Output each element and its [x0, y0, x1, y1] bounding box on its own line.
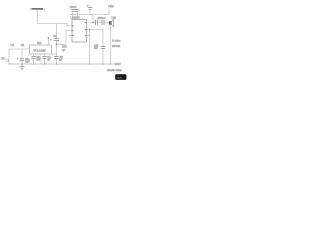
capacitor C8 plates	[31, 56, 35, 58]
wire lower rail	[52, 53, 57, 55]
svg-text:VOLUME: VOLUME	[34, 49, 46, 53]
speaker LS1	[110, 23, 112, 65]
svg-text:220uF: 220uF	[98, 16, 106, 20]
capacitor C2 plates	[54, 39, 59, 41]
capacitor C6 plates	[101, 46, 105, 48]
capacitor C1 gain plates	[71, 9, 78, 11]
svg-text:uF: uF	[47, 58, 50, 61]
potentiometer VR1 leads	[29, 9, 46, 10]
capacitor C3 bypass	[88, 7, 92, 9]
wire C2 bottom	[56, 41, 58, 55]
wire pin5 out	[87, 29, 90, 31]
svg-text:LM386: LM386	[71, 15, 81, 19]
capacitor C9 plates	[42, 56, 46, 58]
svg-text:+9V: +9V	[108, 4, 115, 8]
wire supply corner to pin6	[87, 15, 96, 23]
wire rail faint segment	[93, 14, 109, 16]
ground symbol	[20, 64, 25, 70]
svg-text:+: +	[50, 39, 52, 42]
wire +9V drop	[108, 8, 110, 15]
junction dots bus	[8, 63, 111, 64]
module box volume control	[30, 45, 52, 54]
wire input top rail	[38, 24, 73, 26]
svg-text:C2: C2	[11, 43, 15, 47]
svg-text:16V: 16V	[25, 60, 30, 63]
svg-text:IN: IN	[2, 57, 5, 61]
capacitor C4 output plates	[96, 20, 98, 25]
svg-text:elpro: elpro	[117, 76, 123, 79]
svg-text:SPKR: SPKR	[112, 44, 121, 48]
pin ticks	[72, 22, 86, 36]
IC U1 box	[72, 20, 87, 43]
svg-text:+: +	[17, 57, 19, 60]
wire branch C9	[44, 54, 46, 64]
svg-text:uF: uF	[62, 48, 66, 52]
svg-text:8 ohm: 8 ohm	[112, 39, 121, 43]
svg-text:1W: 1W	[94, 47, 98, 50]
svg-text:uF: uF	[59, 58, 62, 61]
svg-text:circuits today: circuits today	[107, 69, 122, 72]
logo badge	[115, 74, 126, 80]
wire supply rail	[70, 14, 93, 16]
svg-text:C1: C1	[21, 43, 25, 47]
svg-text:+: +	[87, 4, 89, 8]
svg-text:GND: GND	[115, 62, 121, 66]
input jack J1	[6, 59, 9, 62]
wire zobel cap branch	[90, 30, 104, 65]
wire zobel down	[89, 30, 91, 65]
junction dot C2	[56, 44, 57, 45]
wire branch C10	[56, 54, 58, 64]
svg-text:LS1: LS1	[112, 15, 117, 19]
wire wiper to node	[37, 10, 39, 24]
wire wiper stub into box	[47, 38, 49, 45]
junction dot output	[92, 22, 93, 23]
wire C1 to pins 1 8	[73, 11, 78, 19]
wire input rail	[9, 48, 30, 50]
svg-text:10uF: 10uF	[70, 5, 77, 9]
wire output	[98, 22, 111, 24]
wire branch C8	[33, 54, 35, 64]
svg-text:16V: 16V	[36, 58, 41, 61]
capacitor C7 plates	[20, 59, 24, 61]
capacitor C10 plates	[54, 56, 58, 58]
junction dot pin5	[89, 29, 90, 30]
wire branch down C2	[56, 24, 58, 39]
ground bus	[9, 63, 114, 65]
wire pin4 stub	[69, 35, 73, 37]
wire pin3	[57, 31, 73, 45]
wire input vertical	[8, 49, 10, 64]
wire C3 stub	[89, 5, 91, 15]
svg-text:10k: 10k	[37, 41, 42, 45]
wire C7 bottom	[21, 61, 23, 64]
potentiometer VR1 track bar	[32, 8, 44, 10]
wire branch C7	[21, 49, 23, 59]
capacitor C5 plates	[102, 20, 104, 25]
pin7 stub right	[87, 35, 90, 37]
